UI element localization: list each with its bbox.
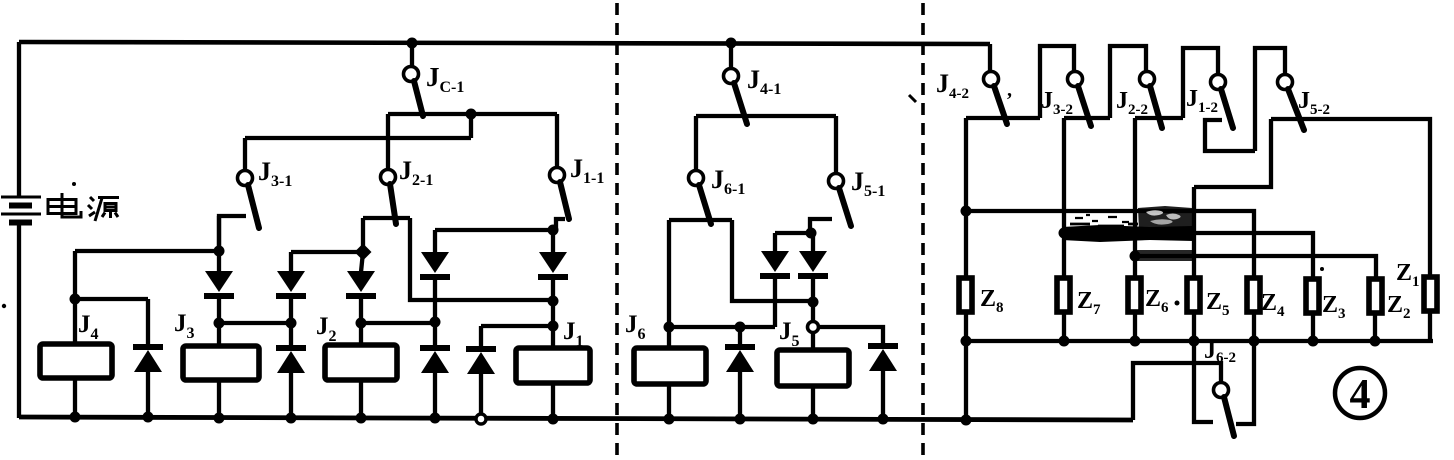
node 219,323 <box>214 318 225 329</box>
wire J_3-2 cell y118 <box>1064 116 1110 120</box>
switch J_6-2 blade <box>1224 397 1234 436</box>
wire drop to J5 donut <box>811 302 815 321</box>
speck tick near dashed separator 2 <box>909 95 916 102</box>
switch J_1-2 pivot <box>1211 75 1226 90</box>
resistor Z7 <box>1057 278 1070 312</box>
node rail 148 <box>143 412 154 423</box>
switch J_3-2 pivot <box>1068 72 1083 87</box>
wire drop to J_2-1 pivot <box>386 114 390 170</box>
label 电源 (power) drawn strokes <box>48 193 119 221</box>
node 75,299 <box>70 294 81 305</box>
switch J_4-2 blade <box>994 86 1007 124</box>
wire J_5-2 output y119 to right rail <box>1271 119 1430 278</box>
node top rail J_C-1 tap <box>407 38 418 49</box>
relay coil J4 <box>40 344 112 378</box>
relay coil J3 <box>183 346 259 380</box>
diode D1 (down) at x361 <box>346 252 376 323</box>
wire bus C y256 to Z2 <box>1135 256 1376 279</box>
speck near battery <box>72 182 76 186</box>
resistor Z3 <box>1306 279 1319 313</box>
switch J_6-1 pivot <box>689 171 704 186</box>
node rail 740 <box>735 414 746 425</box>
node 811,233 <box>806 228 817 239</box>
switch J_2-2 blade <box>1150 86 1162 128</box>
node 1064,233 <box>1059 228 1070 239</box>
wire J1 top lead <box>551 326 555 348</box>
node rail 481 (donut) <box>476 414 486 424</box>
flyback diode across J3 (up) x291 <box>276 323 306 418</box>
wire left vertical battery to bottom rail <box>17 225 21 418</box>
wire y323 J2 segment <box>361 321 435 325</box>
wire y299 to flyback diode D-J4 <box>75 297 148 301</box>
wire drop to J_6-1 pivot <box>694 116 698 171</box>
wire J5 donut to flyback <box>819 327 884 344</box>
wire drop to J_1-1 pivot <box>555 114 559 168</box>
node 1135,256 <box>1130 251 1141 262</box>
wire Z5 drop <box>1192 187 1196 278</box>
switch J_5-2 blade <box>1288 89 1304 130</box>
node bus 1313 <box>1308 336 1319 347</box>
diode D4 (down) at x435 <box>420 230 450 322</box>
resistor Z5 <box>1187 278 1200 312</box>
wire J6 top lead <box>667 327 671 348</box>
wire J_2-2 cell y118 <box>1135 116 1183 120</box>
wire riser 471 <box>469 114 473 138</box>
node bus 1135 <box>1130 336 1141 347</box>
node 553,230 <box>548 225 559 236</box>
diode D7 (down) at x813 <box>798 233 828 302</box>
node diamond 363,252 <box>355 244 372 261</box>
wire top rail corner to J_4-2 <box>988 44 992 72</box>
node bus 1194 <box>1189 336 1200 347</box>
wire Z5 bottom lead with stub <box>1194 312 1213 422</box>
switch J_C-1 blade <box>414 81 423 116</box>
dashed separator 1 <box>615 3 619 458</box>
node 291,323 <box>286 318 297 329</box>
node 813,302 <box>808 297 819 308</box>
speck above Z3 <box>1320 267 1324 271</box>
period after Z6 <box>1175 301 1180 306</box>
wire Z4 bottom lead <box>1252 312 1256 341</box>
switch J_2-1 blade <box>390 184 396 224</box>
wire J1 bottom lead <box>551 383 555 419</box>
resistor Z2 <box>1369 279 1382 313</box>
node at 471,114 <box>466 109 477 120</box>
node rail 75 <box>70 412 81 423</box>
wire J_C-1 drop <box>410 43 414 66</box>
wire J_1-1 tip elbow <box>556 219 565 230</box>
node bus 1254 <box>1249 336 1260 347</box>
dashed separator 2 <box>921 3 925 458</box>
node rail 219 <box>214 413 225 424</box>
node 740,327 <box>735 322 746 333</box>
node bus 966 <box>961 336 972 347</box>
wire Z7 bottom lead <box>1062 312 1066 341</box>
node donut J5 top <box>808 322 819 333</box>
wire J_3-1 tip stub <box>219 216 246 251</box>
wire J_5-1 tip stub <box>810 219 832 233</box>
wire left leg to diamond node <box>361 218 365 252</box>
wire left vertical from rail to battery <box>17 42 21 197</box>
wire y252 segment to diamond <box>291 250 363 254</box>
node 966,211 <box>961 206 972 217</box>
switch J_5-1 pivot <box>829 174 844 189</box>
switch J_1-2 blade <box>1221 89 1233 128</box>
wire bus to bottom rail link <box>964 341 968 420</box>
node 219,251 <box>214 246 225 257</box>
switch J_6-2 pivot <box>1214 383 1229 398</box>
node 361,323 <box>356 318 367 329</box>
wire J2 top lead <box>359 323 363 345</box>
relay coil J1 <box>516 348 590 383</box>
wire Z7 drop <box>1062 118 1066 278</box>
relay coil J5 <box>777 350 849 386</box>
wire J3 top lead <box>217 323 221 346</box>
node 435,322 <box>430 317 441 328</box>
wire Z8 drop <box>964 118 968 278</box>
diode D3 (down) at x219 <box>204 216 234 323</box>
node rail 553 <box>548 414 559 425</box>
wire J2 bottom lead <box>359 380 363 418</box>
node rail 361 <box>356 413 367 424</box>
wire Z3 bottom lead <box>1311 313 1315 341</box>
wire Z4 column stub <box>1236 341 1254 424</box>
flyback diode across J2 (up) x435 <box>420 322 450 418</box>
relay coil J2 <box>325 345 397 380</box>
switch J_3-1 blade <box>248 185 259 228</box>
wire drop flyback D-J4 top lead <box>146 299 150 345</box>
node rail 435 <box>430 413 441 424</box>
wire drop to J_5-1 pivot <box>834 116 838 174</box>
node bus 1375 <box>1370 336 1381 347</box>
node 966,420 <box>961 415 972 426</box>
wire right leg down and over <box>732 220 813 301</box>
wire riser and link to J_3-2 <box>1040 46 1074 118</box>
wire bottom rail <box>19 417 1133 420</box>
wire bottom bus y341 <box>966 339 1433 343</box>
resistor Z1 <box>1424 277 1437 311</box>
wire J_2-1 tip stub y218 <box>363 216 410 220</box>
switch J_4-1 pivot <box>724 69 739 84</box>
node rail 669 <box>664 414 675 425</box>
switch J_1-1 blade <box>560 182 569 219</box>
node 553,301 <box>548 296 559 307</box>
wire J_6-1 tip stub y220 <box>669 218 732 222</box>
wire right leg down and over to J1 node <box>410 218 553 300</box>
diode D2 (down) at x291 <box>276 252 306 323</box>
switch J_1-1 pivot <box>550 168 565 183</box>
wire bus A y211 to Z4 <box>966 211 1254 278</box>
wire J4 bottom lead <box>73 378 77 418</box>
wire y326 J1 flyback link <box>481 324 553 328</box>
flyback diode across J4 (up) x148 <box>133 347 163 418</box>
node top rail J_4-1 tap <box>726 38 737 49</box>
svg-text:4: 4 <box>1350 372 1371 418</box>
switch J_6-1 blade <box>699 185 711 224</box>
node rail 813 <box>808 414 819 425</box>
flyback diode across J5 (up) x883 <box>868 346 898 419</box>
wire J_1-2 cell U <box>1205 120 1255 151</box>
switch J_4-1 blade <box>734 83 747 124</box>
switch J_3-1 pivot <box>238 171 253 186</box>
switch J_2-2 pivot <box>1140 72 1155 87</box>
wire J6 bottom lead <box>667 384 671 419</box>
wire J5 top lead <box>811 332 815 350</box>
wire J_6-2 feed from rail <box>1133 363 1221 420</box>
wire left leg to J6 top <box>667 220 671 327</box>
resistor Z6 <box>1128 278 1141 312</box>
wire J6 node y327 <box>669 325 775 329</box>
node rail 883 <box>878 414 889 425</box>
wire Z2 bottom lead <box>1373 313 1377 341</box>
switch J_5-2 pivot <box>1278 75 1293 90</box>
ink smudge blob <box>1062 206 1193 242</box>
wire J_5-2 left leg to Z5 <box>1194 119 1271 187</box>
switch J_2-1 pivot <box>381 170 396 185</box>
flyback diode across J1 (up) x481 <box>466 326 496 418</box>
svg-text:,: , <box>1007 79 1012 101</box>
wire J_4-1 output y116 <box>696 114 836 118</box>
wire y251 from J4 riser to diode D3 top <box>75 249 219 253</box>
wire y323 J3 segment <box>219 321 291 325</box>
wire riser and link to J_1-2 <box>1183 48 1218 118</box>
wire J_4-1 drop <box>729 43 733 68</box>
wire J5 bottom lead <box>811 386 815 419</box>
power source battery plates <box>1 197 41 214</box>
wire y230 to diode group <box>435 228 556 232</box>
node 669,327 <box>664 322 675 333</box>
wire J_C-1 output horizontal y114 <box>388 112 557 116</box>
wire drop to J_3-1 pivot <box>243 138 247 171</box>
wire riser and link to J_2-2 <box>1110 46 1146 118</box>
wire Z1 bottom lead <box>1428 311 1432 341</box>
speck left margin <box>2 304 6 308</box>
wire top rail <box>19 42 990 44</box>
node rail 291 <box>286 413 297 424</box>
wire Z8 bottom lead <box>964 312 968 341</box>
wire J_4-2 cell y118 <box>966 116 1040 120</box>
node 553,326 J1 top <box>548 321 559 332</box>
wire y138 to J_3-1 <box>245 136 471 140</box>
wire y233 diode feed <box>775 231 813 235</box>
figure number circle 4 <box>1335 368 1385 418</box>
node bus 1064 <box>1059 336 1070 347</box>
flyback diode across J6 (up) x740 <box>725 327 755 419</box>
wire riser and link to J_5-2 <box>1255 48 1285 151</box>
resistor Z4 <box>1247 278 1260 312</box>
wire bus B y233 to Z3 <box>1064 233 1313 279</box>
switch J_5-1 blade <box>839 188 851 226</box>
wire Z6 bottom lead <box>1133 312 1137 341</box>
diode D6 (down) at x775 <box>760 233 790 327</box>
switch J_4-2 pivot <box>984 72 999 87</box>
switch J_3-2 blade <box>1078 86 1091 126</box>
ink smudge on bus C <box>1133 250 1195 261</box>
switch J_C-1 pivot <box>404 67 419 82</box>
wire J3 bottom lead <box>217 380 221 418</box>
wire Z6 drop <box>1133 118 1137 278</box>
diode D5 (down) at x553 <box>538 230 568 326</box>
resistor Z8 <box>959 278 972 312</box>
wire J4 riser vertical <box>73 251 77 344</box>
relay coil J6 <box>634 348 706 384</box>
